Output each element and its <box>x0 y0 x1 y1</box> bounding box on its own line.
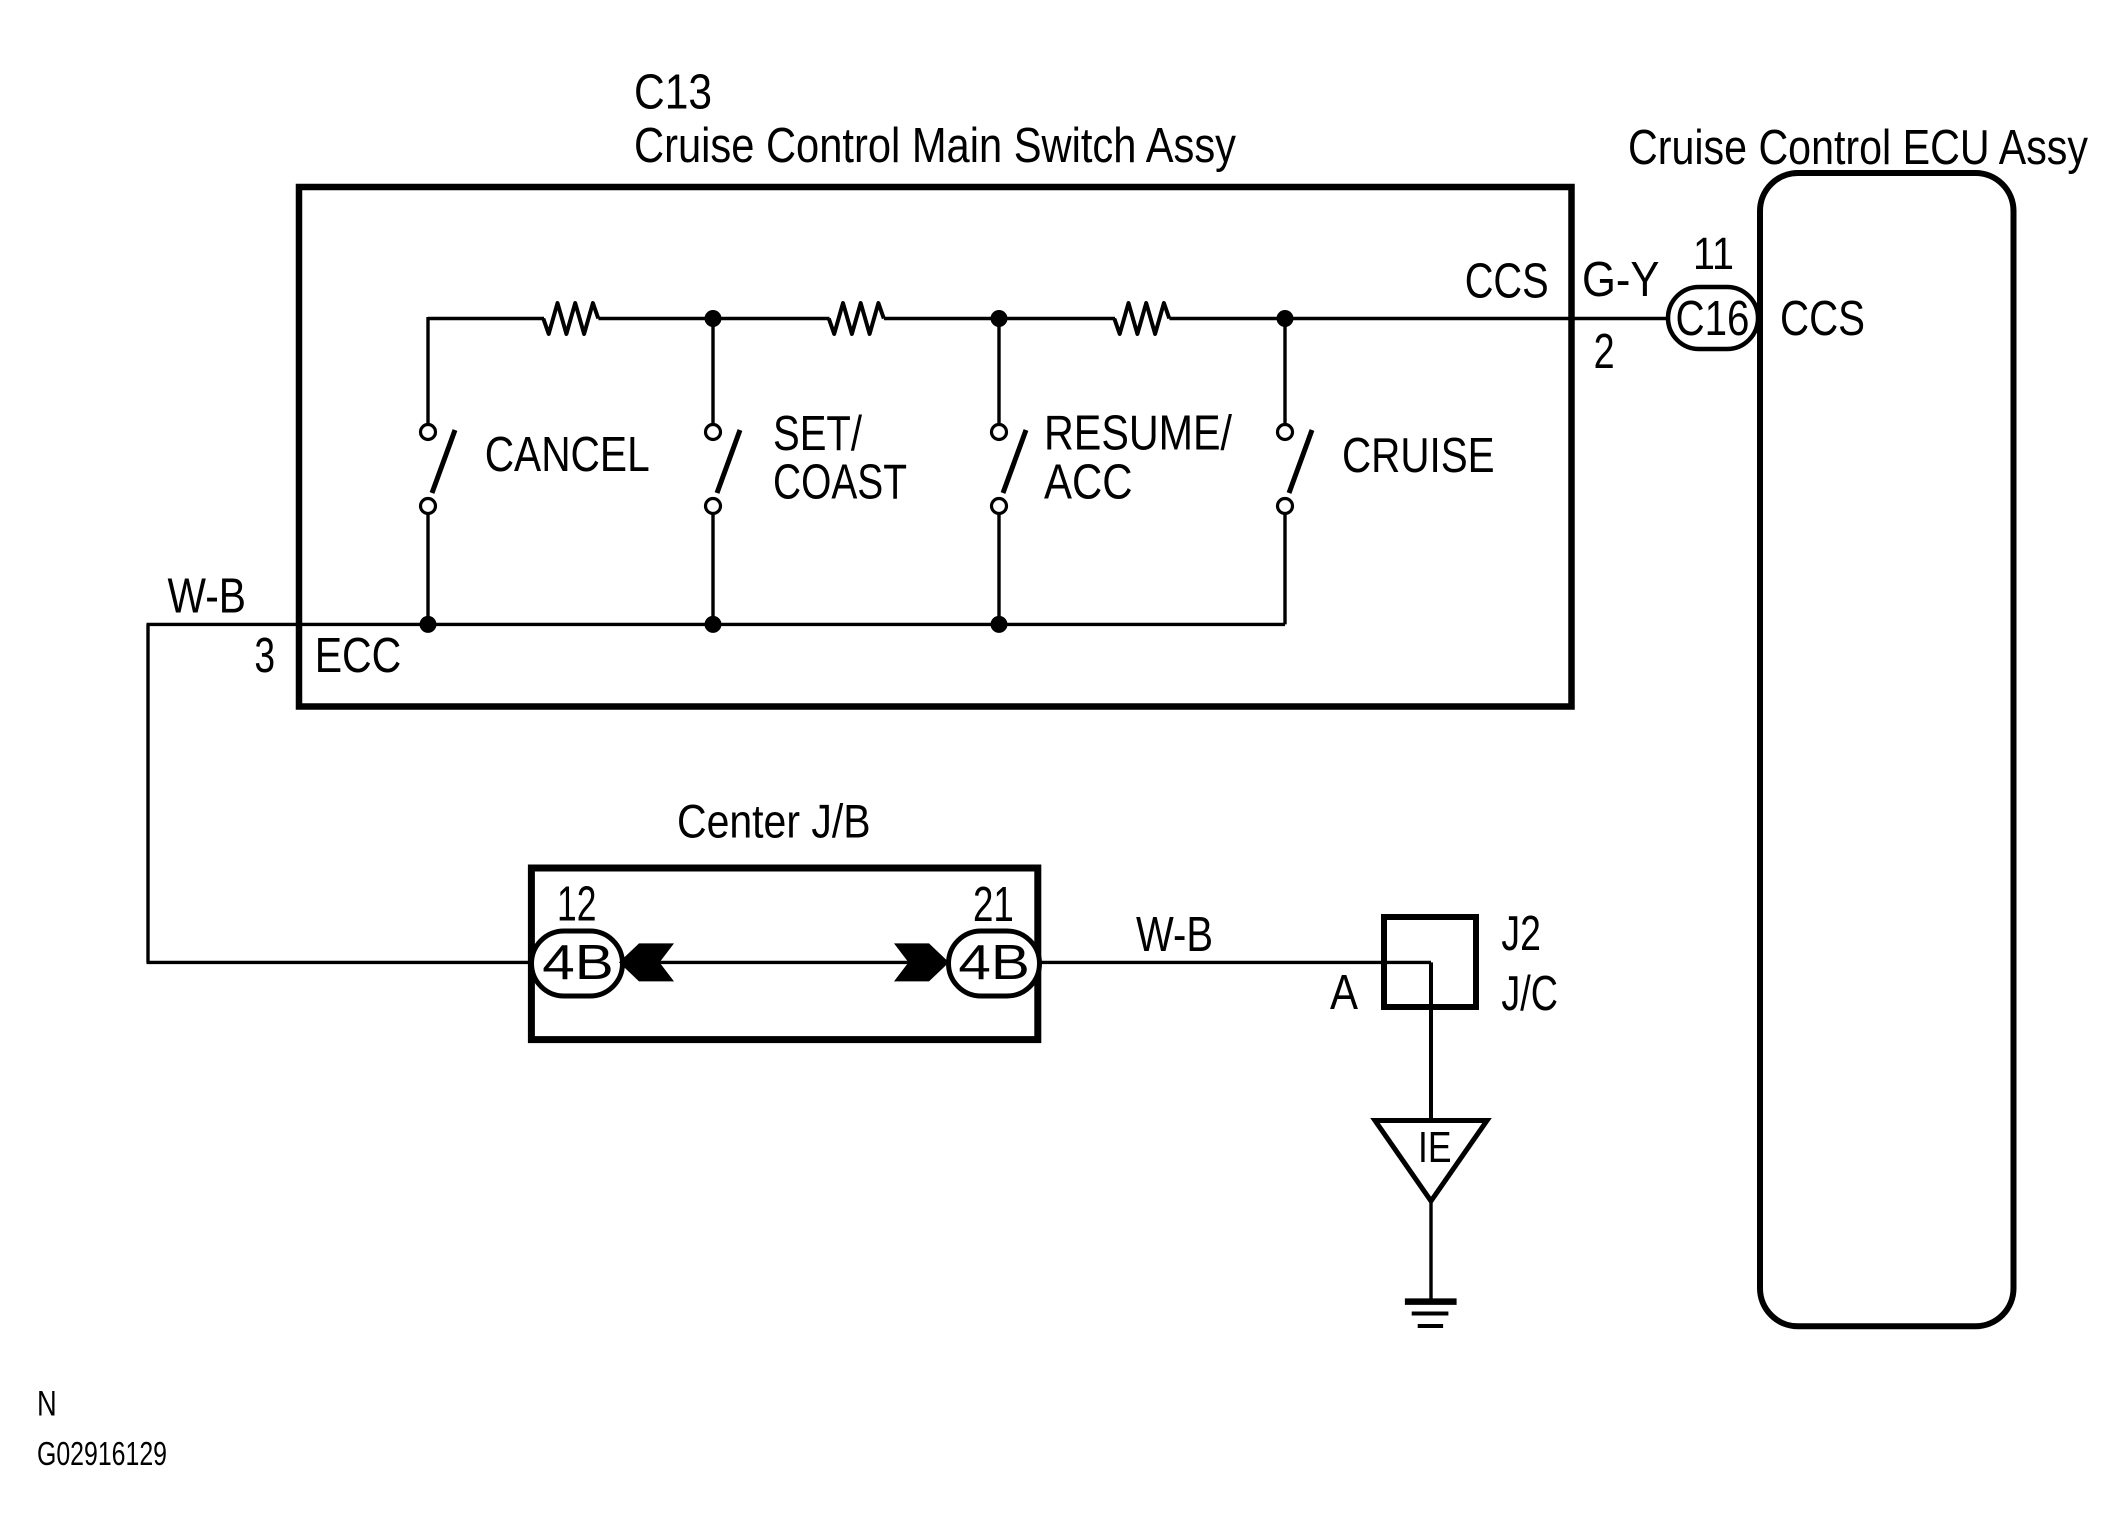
svg-text:CCS: CCS <box>1465 254 1549 309</box>
svg-text:RESUME/: RESUME/ <box>1044 406 1232 461</box>
svg-text:21: 21 <box>973 877 1014 932</box>
svg-text:Cruise Control ECU Assy: Cruise Control ECU Assy <box>1628 120 2088 175</box>
svg-text:W-B: W-B <box>1136 907 1213 962</box>
svg-text:Center J/B: Center J/B <box>677 796 871 849</box>
svg-text:3: 3 <box>254 628 275 683</box>
svg-text:C16: C16 <box>1676 291 1750 346</box>
svg-text:G02916129: G02916129 <box>37 1436 167 1473</box>
svg-text:ECC: ECC <box>315 628 402 683</box>
svg-text:2: 2 <box>1594 324 1615 379</box>
svg-text:CRUISE: CRUISE <box>1342 428 1495 483</box>
svg-text:12: 12 <box>557 877 596 932</box>
svg-text:4B: 4B <box>542 935 614 990</box>
svg-text:J2: J2 <box>1501 906 1541 961</box>
svg-text:W-B: W-B <box>168 569 247 624</box>
svg-text:SET/: SET/ <box>773 406 862 461</box>
svg-text:4B: 4B <box>958 935 1030 990</box>
svg-text:ACC: ACC <box>1044 455 1133 510</box>
svg-text:J/C: J/C <box>1501 966 1558 1021</box>
svg-text:IE: IE <box>1418 1123 1452 1172</box>
svg-text:Cruise Control Main Switch Ass: Cruise Control Main Switch Assy <box>634 118 1236 173</box>
svg-text:G-Y: G-Y <box>1582 252 1660 307</box>
svg-text:CANCEL: CANCEL <box>485 427 650 482</box>
svg-text:A: A <box>1330 965 1358 1020</box>
svg-text:N: N <box>37 1385 57 1424</box>
svg-text:COAST: COAST <box>773 455 907 510</box>
svg-text:CCS: CCS <box>1780 291 1865 346</box>
svg-text:C13: C13 <box>634 65 712 120</box>
svg-text:11: 11 <box>1693 228 1734 279</box>
